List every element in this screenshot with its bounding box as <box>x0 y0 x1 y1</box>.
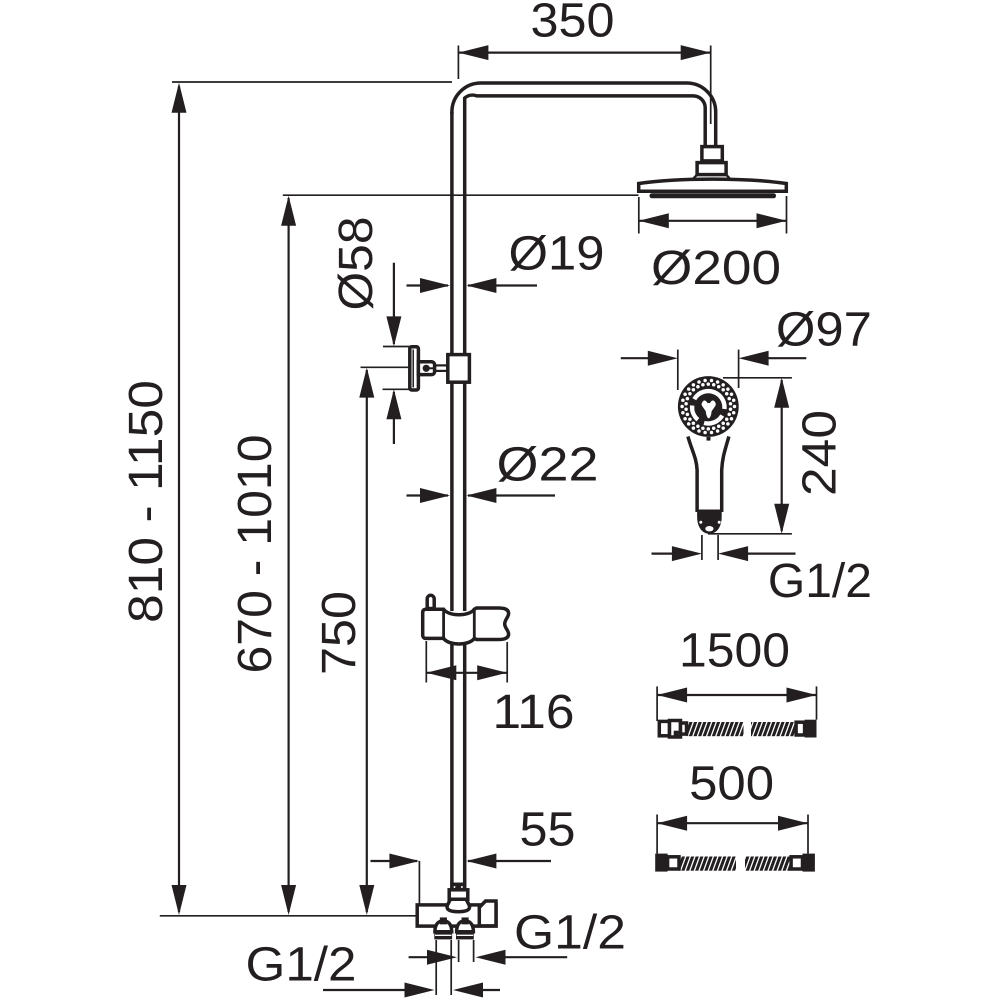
hose 1500 <box>659 720 816 738</box>
svg-text:G1/2: G1/2 <box>514 907 626 960</box>
svg-text:240: 240 <box>794 410 847 496</box>
svg-text:Ø22: Ø22 <box>497 439 599 492</box>
svg-text:G1/2: G1/2 <box>246 939 357 992</box>
mixer inlet dome <box>447 899 469 911</box>
dimension O200 <box>639 196 787 234</box>
wall bracket rod <box>435 365 448 371</box>
pipe block at bracket <box>448 355 470 383</box>
dimension 55 <box>371 854 552 905</box>
dimension O97 <box>621 350 807 390</box>
dimension 240 <box>708 378 792 534</box>
svg-text:670 - 1010: 670 - 1010 <box>229 435 282 674</box>
svg-text:Ø19: Ø19 <box>509 228 605 281</box>
hand shower head <box>678 376 739 441</box>
wire: extension line A (top, y=82) <box>172 81 452 83</box>
wire: baseline C (bottom, y=915.8) <box>160 915 441 917</box>
dimension O58 <box>383 263 411 444</box>
svg-text:Ø97: Ø97 <box>776 304 872 357</box>
mixer pipe nut <box>449 890 468 900</box>
mixer outlet right <box>456 919 474 939</box>
mixer pipe nut tabs <box>452 884 457 890</box>
svg-text:350: 350 <box>531 0 615 48</box>
mixer right fitting <box>479 901 496 926</box>
shower arm (top bend) <box>452 83 716 147</box>
svg-text:G1/2: G1/2 <box>768 555 872 608</box>
svg-text:750: 750 <box>313 591 366 675</box>
wall bracket flange <box>410 347 419 390</box>
logo in hand shower head <box>702 400 716 418</box>
svg-text:55: 55 <box>520 804 576 857</box>
svg-text:810 - 1150: 810 - 1150 <box>120 380 173 623</box>
svg-text:116: 116 <box>493 686 575 739</box>
dimension 1500 <box>657 686 816 721</box>
slider holder <box>423 595 509 644</box>
dimension 750 line <box>359 367 410 915</box>
mixer outlet left <box>434 919 452 939</box>
dimension 500 <box>657 815 808 854</box>
dimension 670-1010 line <box>281 196 296 915</box>
rain shower head <box>639 175 787 199</box>
svg-text:500: 500 <box>689 758 774 811</box>
wall bracket arm <box>418 362 434 375</box>
dimension 116 <box>426 641 507 683</box>
dimension 810-1150 line <box>172 83 187 915</box>
svg-text:Ø200: Ø200 <box>651 242 781 295</box>
dimension O22 <box>407 488 556 503</box>
rain head connector collar 1 <box>702 147 722 161</box>
hose 500 <box>655 854 815 872</box>
dimension G1/2 hand shower <box>652 535 796 561</box>
svg-text:1500: 1500 <box>679 625 790 678</box>
dimension O19 <box>407 278 538 293</box>
rain head connector collar 2 <box>697 163 726 175</box>
rain head connector neck <box>705 161 707 163</box>
dimension 350 <box>458 45 710 124</box>
wire: extension line B (head bottom, y=195.2) <box>283 194 639 196</box>
svg-text:Ø58: Ø58 <box>330 217 383 311</box>
shower column pipe upper <box>452 97 465 890</box>
dimension G1/2 right outlet <box>409 940 568 965</box>
dimension G1/2 left outlet <box>323 940 500 998</box>
hand shower handle <box>688 437 729 534</box>
mixer body <box>417 905 496 926</box>
